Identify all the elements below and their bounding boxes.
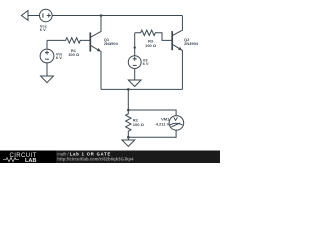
svg-text:100 Ω: 100 Ω [145, 43, 157, 48]
svg-text:6 V: 6 V [40, 27, 46, 32]
svg-text:http://circuitlab.com/c/62b6qk: http://circuitlab.com/c/62b6qk3GJkp4 [57, 156, 134, 161]
junction dot on V3 wire [134, 46, 136, 48]
wire Vin bottom lead [46, 63, 48, 76]
junction dot at R2 bottom [127, 136, 130, 139]
wire voltmeter bottom loop [128, 130, 176, 138]
wire V3 column [134, 33, 136, 56]
svg-text:6 V: 6 V [143, 61, 149, 66]
svg-text:LAB: LAB [25, 158, 37, 164]
wire top rail [52, 15, 182, 17]
node flag F1 [21, 11, 28, 21]
wire emitter rail [101, 88, 182, 90]
svg-text:2N3904: 2N3904 [184, 41, 199, 46]
junction dot on rail [127, 88, 130, 91]
voltage source V3 [128, 56, 141, 69]
watermark bar [0, 151, 220, 164]
junction dot at R2 top [127, 109, 130, 112]
voltage source Vin [40, 49, 54, 63]
transistor Q2 [172, 16, 182, 90]
wire Vin top lead [46, 40, 48, 49]
ground under V3 [128, 80, 141, 87]
svg-text:6 V: 6 V [56, 55, 62, 60]
voltage source Vcc [40, 9, 53, 22]
circuitlab logo [3, 153, 37, 164]
svg-text:2N3904: 2N3904 [104, 41, 119, 46]
voltmeter VM1 [169, 116, 184, 131]
svg-text:4.211 V: 4.211 V [156, 121, 170, 126]
resistor R2 [126, 110, 131, 137]
svg-text:100 Ω: 100 Ω [68, 52, 80, 57]
ground under Vin [41, 76, 54, 83]
transistor Q1 [90, 16, 101, 90]
svg-text:VM1: VM1 [161, 117, 170, 122]
wire [28, 15, 40, 17]
wire V3 bottom lead [134, 69, 136, 81]
svg-text:100 Ω: 100 Ω [133, 122, 145, 127]
wire to voltmeter top [128, 110, 176, 116]
resistor R1 [47, 38, 90, 43]
wire down to R2 node [127, 89, 129, 110]
labels [40, 24, 199, 127]
resistor R3 [135, 30, 173, 40]
junction dot at Q1 collector [100, 14, 103, 17]
ground under R2 [122, 137, 135, 146]
